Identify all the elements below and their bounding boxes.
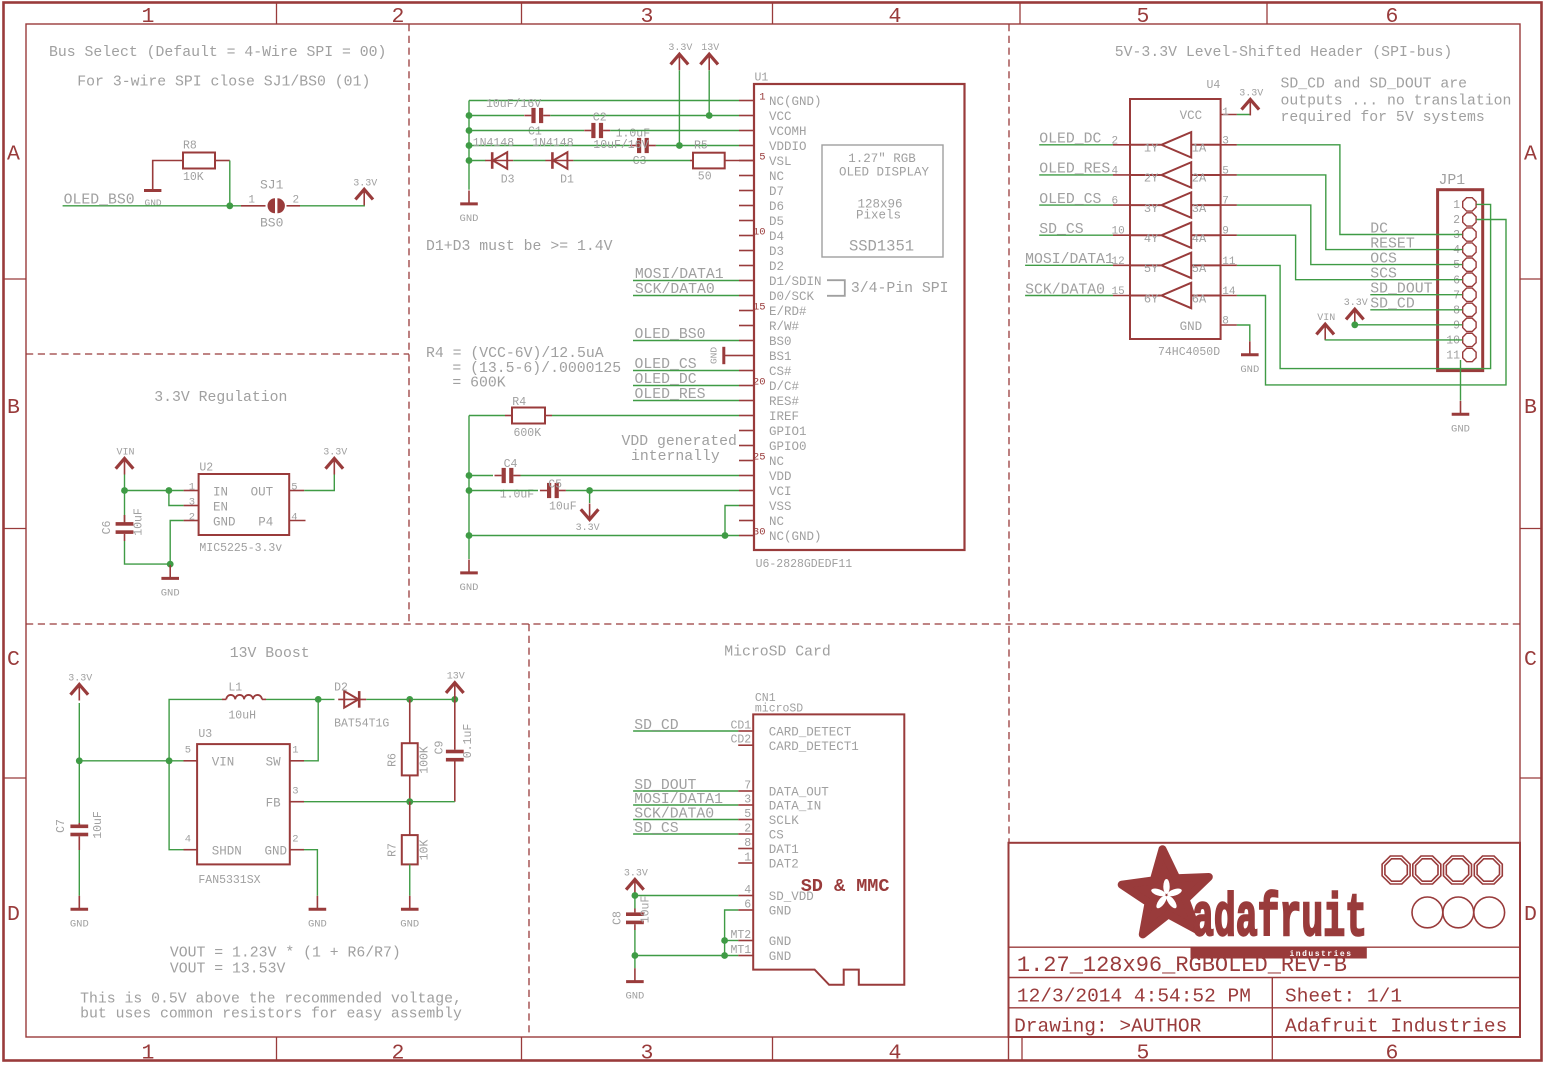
svg-text:R7: R7 — [387, 843, 400, 857]
dashed section divider vertical x=529 — [528, 624, 530, 1037]
svg-text:VDDIO: VDDIO — [769, 140, 807, 154]
buffer 5 of U4 — [1130, 253, 1221, 278]
svg-text:BS0: BS0 — [260, 215, 283, 230]
buffer 3 of U4 — [1130, 192, 1221, 217]
wire D3 to D1 — [513, 160, 545, 162]
svg-text:10K: 10K — [183, 171, 204, 184]
svg-text:10: 10 — [753, 227, 766, 239]
svg-text:MicroSD Card: MicroSD Card — [724, 645, 831, 661]
wire 3.3V rail down — [634, 896, 636, 909]
svg-text:OLED DISPLAY: OLED DISPLAY — [839, 166, 930, 180]
junction rail VCI — [466, 487, 473, 494]
svg-text:10: 10 — [1112, 226, 1125, 238]
svg-text:GND: GND — [769, 950, 792, 964]
svg-text:U2: U2 — [199, 462, 213, 475]
svg-text:7: 7 — [744, 780, 751, 793]
capacitor C4 — [495, 458, 535, 502]
net MOSI/DATA1 at CN1 — [633, 792, 738, 808]
svg-text:= (13.5-6)/.0000125: = (13.5-6)/.0000125 — [452, 361, 621, 377]
svg-text:1: 1 — [759, 92, 765, 104]
svg-text:3.3V: 3.3V — [353, 178, 377, 189]
svg-text:JP1: JP1 — [1439, 173, 1466, 189]
wire SW riser — [290, 699, 318, 760]
svg-text:1: 1 — [142, 1042, 155, 1065]
svg-text:VDD generated: VDD generated — [621, 434, 736, 450]
svg-text:OLED_BS0: OLED_BS0 — [64, 193, 135, 209]
svg-text:3: 3 — [641, 1042, 654, 1065]
capacitor C2 — [584, 112, 650, 141]
svg-text:SD_CS: SD_CS — [634, 821, 679, 837]
JP1 pin numbers — [1446, 199, 1460, 363]
svg-text:U6-2828GDEDF11: U6-2828GDEDF11 — [756, 558, 853, 571]
svg-text:5: 5 — [291, 481, 297, 493]
frame column numbers top — [142, 5, 1399, 29]
dashed section divider vertical x=409 — [408, 24, 410, 624]
svg-text:Bus Select (Default = 4-Wire S: Bus Select (Default = 4-Wire SPI = 00) — [49, 45, 386, 61]
wire VIN to JP1 pin10 — [1325, 339, 1462, 341]
svg-text:GND: GND — [709, 347, 720, 364]
svg-text:SCLK: SCLK — [769, 814, 800, 828]
svg-text:C5: C5 — [548, 478, 562, 491]
svg-text:D/C#: D/C# — [769, 380, 800, 394]
U4 output pin 11 stub — [1221, 256, 1237, 268]
svg-text:GND: GND — [769, 935, 792, 949]
wire OUT to 3.3V — [304, 475, 334, 491]
resistor R7 — [387, 802, 432, 865]
logo underline bar — [1191, 947, 1367, 958]
svg-text:R8: R8 — [183, 140, 197, 153]
svg-text:3.3V: 3.3V — [1239, 88, 1263, 99]
buffer 6 of U4 — [1130, 283, 1221, 308]
connector CN1 microSD outline — [753, 692, 904, 985]
wire C6 bottom to gnd net — [125, 541, 171, 564]
junction MT1 row — [632, 952, 639, 959]
svg-text:1: 1 — [292, 745, 298, 757]
svg-text:For 3-wire SPI close SJ1/BS0 (: For 3-wire SPI close SJ1/BS0 (01) — [77, 75, 370, 91]
svg-text:GND: GND — [264, 845, 287, 859]
net SCK/DATA0 at U4 — [1025, 282, 1113, 298]
svg-text:SW: SW — [266, 756, 282, 770]
svg-text:2A: 2A — [1192, 172, 1207, 186]
svg-text:15: 15 — [1112, 286, 1125, 298]
resistor R4 — [505, 396, 552, 440]
svg-text:VCOMH: VCOMH — [769, 125, 807, 139]
U4 input pin 4 stub — [1112, 165, 1131, 177]
net SD_CS at U4 — [1039, 222, 1113, 238]
junction VSS branch — [722, 532, 729, 539]
svg-text:C3: C3 — [633, 155, 647, 168]
svg-text:1: 1 — [248, 195, 255, 207]
supply 13V above U1 — [700, 43, 719, 70]
wire VCI row right — [566, 490, 739, 492]
svg-text:3: 3 — [744, 794, 751, 807]
wire R8 left lead down to ground — [153, 161, 183, 190]
wire NC(GND) pin1 — [469, 100, 739, 102]
svg-text:VOUT = 1.23V * (1 + R6/R7): VOUT = 1.23V * (1 + R6/R7) — [170, 946, 401, 962]
svg-text:D: D — [7, 903, 20, 927]
net SD_DOUT at CN1 — [633, 778, 738, 794]
frame row letters left — [7, 143, 20, 928]
junction rail VCOMH — [466, 127, 473, 134]
U4 input pin 12 stub — [1112, 256, 1131, 268]
svg-text:GND: GND — [1180, 320, 1203, 334]
junction rail VDD — [466, 472, 473, 479]
U4 GND pin8 stub — [1221, 316, 1237, 328]
ground at C7 — [70, 896, 89, 931]
svg-text:IREF: IREF — [769, 410, 799, 424]
svg-text:5: 5 — [1222, 165, 1229, 177]
svg-text:D2: D2 — [769, 260, 784, 274]
wire 3.3V to SD_VDD — [635, 895, 738, 897]
svg-text:6: 6 — [1386, 1042, 1399, 1065]
U4 output pin 3 stub — [1221, 135, 1237, 147]
junction rail VSL — [466, 157, 473, 164]
wire U2 GND pin down — [170, 521, 183, 565]
svg-text:CD2: CD2 — [730, 734, 751, 747]
svg-text:5A: 5A — [1192, 262, 1207, 276]
net OLED_RES at U4 — [1039, 162, 1113, 178]
svg-text:5: 5 — [1137, 5, 1150, 29]
U2 pin numbers — [189, 481, 298, 523]
net SCK/DATA0 at U1 — [633, 282, 739, 298]
ground at BS1 (rotated) — [709, 347, 740, 365]
svg-text:internally: internally — [631, 449, 720, 465]
svg-text:GND: GND — [308, 918, 327, 930]
svg-text:10K: 10K — [419, 840, 432, 861]
svg-text:13V Boost: 13V Boost — [230, 646, 310, 662]
ground at U2 — [161, 565, 180, 600]
wire 3.3V to VIN — [79, 760, 183, 762]
junction VIN rail — [121, 487, 128, 494]
U4 input pin 6 stub — [1112, 196, 1131, 208]
svg-text:GND: GND — [625, 991, 644, 1003]
svg-text:R5: R5 — [694, 140, 708, 153]
wire VCC to 3.3V — [1237, 111, 1250, 115]
wire R4 to IREF pin — [552, 415, 739, 417]
svg-text:SD_CD and SD_DOUT are: SD_CD and SD_DOUT are — [1281, 77, 1467, 93]
svg-text:NC: NC — [769, 170, 784, 184]
supply 3.3V down at VCI — [576, 491, 600, 535]
wire VDD row right — [521, 475, 740, 477]
svg-text:3.3V: 3.3V — [576, 523, 600, 534]
svg-text:3.3V: 3.3V — [323, 448, 347, 459]
wire 3.3V to JP1 pin9 — [1355, 324, 1463, 326]
wire MT1 row — [635, 955, 738, 957]
junction 3.3V JP1 — [1351, 321, 1358, 328]
svg-text:Pixels: Pixels — [856, 209, 901, 223]
svg-text:4: 4 — [889, 1042, 902, 1065]
svg-text:1A: 1A — [1192, 142, 1207, 156]
svg-text:4Y: 4Y — [1144, 232, 1158, 246]
svg-text:DATA_IN: DATA_IN — [769, 800, 822, 814]
wire rail left of C4/C5 — [468, 416, 470, 560]
dashed section divider horizontal y=624 — [26, 623, 1520, 625]
wire U4 GND to ground — [1237, 325, 1250, 341]
title block row line 1 — [1009, 946, 1521, 948]
svg-text:1Y: 1Y — [1144, 142, 1158, 156]
ground at R7 — [400, 896, 419, 931]
svg-text:but uses common resistors for: but uses common resistors for easy assem… — [80, 1006, 462, 1022]
wire L1 to D2 — [266, 698, 335, 700]
junction rail VCC — [466, 112, 473, 119]
svg-text:MOSI/DATA1: MOSI/DATA1 — [635, 267, 724, 283]
title block column divider — [1271, 978, 1273, 1038]
svg-text:VDD: VDD — [769, 470, 792, 484]
supply 3.3V at SJ1 — [353, 178, 377, 205]
svg-text:GND: GND — [161, 588, 180, 600]
svg-text:13V: 13V — [447, 672, 465, 683]
resistor R5 — [690, 140, 725, 184]
wire VCC row right — [550, 115, 739, 117]
resistor R8 — [183, 140, 215, 184]
wire VSL row left — [469, 160, 486, 162]
junction rail VDDIO — [466, 142, 473, 149]
svg-text:10uF: 10uF — [92, 811, 105, 839]
svg-text:GPIO0: GPIO0 — [769, 440, 807, 454]
svg-text:SCK/DATA0: SCK/DATA0 — [635, 282, 715, 298]
capacitor C9 — [434, 699, 476, 801]
dashed section divider horizontal y=354 — [26, 353, 409, 355]
net SD_CD at CN1 — [633, 718, 738, 734]
svg-text:D2: D2 — [334, 682, 348, 695]
svg-text:outputs ... no translation: outputs ... no translation — [1281, 93, 1512, 109]
svg-text:NC(GND): NC(GND) — [769, 95, 822, 109]
ground at U4 — [1240, 341, 1259, 376]
junction 3.3V CN1 — [632, 892, 639, 899]
IC U2 MIC5225 — [199, 462, 290, 556]
svg-text:GND: GND — [400, 918, 419, 930]
capacitor C5 — [540, 478, 577, 513]
net OLED_RES at U1 — [633, 387, 739, 403]
svg-text:This is 0.5V above the recomme: This is 0.5V above the recommended volta… — [80, 992, 462, 1008]
svg-text:D0/SCK: D0/SCK — [769, 290, 815, 304]
svg-text:OCS: OCS — [1370, 251, 1397, 267]
svg-text:U3: U3 — [198, 728, 212, 741]
junction MT2 — [721, 937, 728, 944]
svg-text:Drawing: >AUTHOR: Drawing: >AUTHOR — [1014, 1015, 1202, 1037]
title block left edge extension — [1008, 1037, 1010, 1061]
svg-text:6: 6 — [1386, 5, 1399, 29]
svg-text:3/4-Pin SPI: 3/4-Pin SPI — [851, 281, 949, 297]
resistor R6 — [387, 699, 432, 801]
svg-text:1: 1 — [189, 481, 195, 493]
junction VDDIO/3.3V — [676, 142, 683, 149]
svg-text:8: 8 — [1453, 304, 1460, 317]
svg-text:7: 7 — [1222, 196, 1229, 208]
net SCK/DATA0 at CN1 — [633, 806, 738, 822]
svg-text:3.3V: 3.3V — [68, 674, 92, 685]
svg-text:3.3V: 3.3V — [1344, 298, 1368, 309]
svg-text:9: 9 — [1222, 226, 1229, 238]
junction gnd net — [167, 561, 174, 568]
svg-text:U1: U1 — [755, 72, 769, 85]
svg-text:C7: C7 — [55, 819, 68, 833]
wire VCOMH row left — [469, 130, 584, 132]
wire D1 to R5 — [573, 160, 690, 162]
svg-text:VIN: VIN — [212, 756, 235, 770]
svg-text:GND: GND — [145, 197, 162, 208]
U4 output pin 9 stub — [1221, 226, 1237, 238]
wire gnd rail left of U1 — [468, 101, 470, 190]
svg-text:SSD1351: SSD1351 — [849, 238, 914, 256]
dashed section divider vertical x=1009 — [1008, 24, 1010, 843]
svg-text:5: 5 — [744, 808, 751, 821]
junction rail NC(GND) — [466, 532, 473, 539]
svg-text:6A: 6A — [1192, 292, 1207, 306]
svg-text:10uF/16V: 10uF/16V — [593, 139, 648, 152]
wire U4 out5 to JP1 pin4 (RESET) — [1237, 175, 1463, 250]
svg-text:C9: C9 — [434, 741, 447, 755]
supply VIN at JP1 pin10 — [1316, 313, 1335, 340]
logo adafruit star — [1122, 849, 1209, 934]
wire IREF row — [469, 415, 505, 417]
svg-text:20: 20 — [753, 377, 766, 389]
net OLED_BS0 at U1 — [633, 327, 739, 343]
svg-text:3.3V Regulation: 3.3V Regulation — [154, 390, 287, 406]
net OLED_CS at U4 — [1039, 192, 1113, 208]
svg-text:OLED_DC: OLED_DC — [635, 372, 697, 388]
junction EN branch — [166, 487, 173, 494]
svg-text:D1/SDIN: D1/SDIN — [769, 275, 822, 289]
net OLED_BS0 wire — [63, 193, 241, 209]
IC U1 SSD1351 OLED box — [754, 72, 965, 572]
svg-text:D7: D7 — [769, 185, 784, 199]
svg-text:3.3V: 3.3V — [668, 43, 692, 54]
svg-text:1N4148: 1N4148 — [532, 137, 574, 150]
supply VIN — [116, 448, 135, 475]
svg-text:A: A — [1524, 143, 1537, 167]
wire R8 right lead — [215, 160, 230, 162]
IC U4 74HC4050D box — [1130, 79, 1221, 359]
svg-text:OLED_RES: OLED_RES — [1039, 162, 1110, 178]
junction SW — [315, 696, 322, 703]
svg-text:C2: C2 — [593, 112, 607, 125]
ground below C4/C5 rail — [460, 560, 479, 595]
svg-text:C: C — [7, 648, 20, 672]
U4 output pin 5 stub — [1221, 165, 1237, 177]
svg-text:3: 3 — [189, 496, 195, 508]
ground at U1 top rail — [460, 191, 479, 226]
frame column ticks top — [277, 3, 1268, 25]
svg-text:OLED_RES: OLED_RES — [635, 387, 706, 403]
svg-text:13V: 13V — [701, 43, 719, 54]
svg-text:10uF: 10uF — [640, 896, 653, 924]
svg-text:FB: FB — [266, 796, 282, 810]
svg-text:CS: CS — [769, 829, 784, 843]
JP1 pads — [1463, 198, 1476, 362]
svg-text:1N4148: 1N4148 — [473, 137, 515, 150]
net SD_CS at CN1 — [633, 821, 738, 837]
wire VCI row left — [469, 490, 538, 492]
svg-text:D5: D5 — [769, 215, 784, 229]
buffer 1 of U4 — [1130, 132, 1221, 157]
svg-text:VIN: VIN — [116, 448, 134, 459]
svg-text:12/3/2014 4:54:52 PM: 12/3/2014 4:54:52 PM — [1017, 985, 1251, 1007]
svg-text:SHDN: SHDN — [212, 845, 242, 859]
svg-text:RES#: RES# — [769, 395, 800, 409]
wire U4 out11 to JP1 pin1 — [1237, 204, 1491, 368]
svg-text:3: 3 — [641, 5, 654, 29]
wire U4 out3 to JP1 pin3 (DC) — [1237, 145, 1463, 235]
svg-text:5: 5 — [1137, 1042, 1150, 1065]
logo star center flower — [1150, 879, 1182, 910]
svg-text:3: 3 — [1453, 229, 1460, 242]
svg-text:SD_CD: SD_CD — [1370, 297, 1415, 313]
wire L1 branch — [169, 699, 222, 760]
logo circles — [1412, 897, 1505, 928]
svg-text:D6: D6 — [769, 200, 784, 214]
svg-text:OUT: OUT — [251, 485, 274, 499]
ground at JP1 — [1451, 401, 1470, 436]
svg-text:50: 50 — [698, 170, 712, 183]
svg-text:D1+D3 must be >= 1.4V: D1+D3 must be >= 1.4V — [426, 239, 613, 255]
svg-text:1: 1 — [1453, 199, 1460, 212]
net OLED_DC at U1 — [633, 372, 739, 388]
svg-text:R4 = (VCC-6V)/12.5uA: R4 = (VCC-6V)/12.5uA — [426, 346, 604, 362]
svg-text:4: 4 — [1453, 244, 1460, 257]
svg-text:5V-3.3V Level-Shifted Header (: 5V-3.3V Level-Shifted Header (SPI-bus) — [1115, 45, 1452, 61]
wire 13V riser — [454, 698, 456, 699]
svg-text:GPIO1: GPIO1 — [769, 425, 807, 439]
net SD_CD at JP1 pin8 — [1370, 297, 1462, 313]
svg-text:4: 4 — [185, 834, 191, 846]
svg-text:NC: NC — [769, 455, 784, 469]
svg-text:4: 4 — [744, 884, 751, 897]
net MOSI/DATA1 at U1 — [633, 267, 739, 283]
U1 pin stubs — [739, 101, 754, 536]
svg-text:D3: D3 — [769, 245, 784, 259]
diode D1 — [532, 137, 574, 187]
svg-text:8: 8 — [1222, 316, 1229, 328]
wire JP1 pin11 to ground — [1460, 360, 1462, 401]
U2 pin OUT stub — [289, 490, 304, 492]
diode D2 — [334, 682, 389, 731]
wire VCC row left — [469, 115, 524, 117]
wire 3.3V down to VDDIO — [678, 70, 680, 145]
junction VCC/13V — [706, 112, 713, 119]
solder jumper SJ1/BS0 — [241, 178, 300, 231]
svg-text:RESET: RESET — [1370, 236, 1415, 252]
svg-text:GND: GND — [460, 213, 479, 225]
svg-text:SCS: SCS — [1370, 267, 1397, 283]
svg-text:11: 11 — [1222, 256, 1236, 268]
wire GND pin6 branch — [725, 910, 739, 956]
svg-text:10: 10 — [1446, 335, 1460, 348]
logo octagon rings — [1382, 856, 1502, 884]
diode D3 — [473, 137, 515, 187]
U4 input pin 15 stub — [1112, 286, 1131, 298]
ground at U3 — [308, 896, 327, 931]
wire D2 to 13V — [366, 698, 455, 700]
svg-text:4A: 4A — [1192, 232, 1207, 246]
svg-text:3A: 3A — [1192, 202, 1207, 216]
svg-text:30: 30 — [753, 527, 766, 539]
supply 3.3V at U4 — [1239, 88, 1263, 115]
CN1 pin stubs — [738, 731, 753, 956]
svg-text:6Y: 6Y — [1144, 292, 1158, 306]
wire SJ1 pin2 to 3.3V — [300, 189, 364, 206]
svg-text:8: 8 — [744, 837, 751, 850]
svg-text:D3: D3 — [501, 174, 515, 187]
svg-text:DATA_OUT: DATA_OUT — [769, 786, 830, 800]
svg-text:NC(GND): NC(GND) — [769, 530, 822, 544]
svg-text:2: 2 — [392, 5, 405, 29]
capacitor C7 — [55, 811, 105, 850]
note VDD generated internally — [621, 434, 736, 465]
svg-text:5: 5 — [759, 152, 765, 164]
svg-text:SJ1: SJ1 — [260, 178, 284, 193]
wire to ground CN1 — [634, 956, 636, 969]
